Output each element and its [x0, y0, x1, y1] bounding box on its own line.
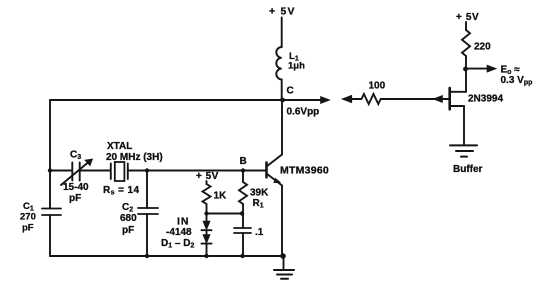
- svg-text:-4148: -4148: [166, 227, 192, 238]
- wire: drain up to node: [465, 69, 467, 92]
- node: diode branch at bottom rail: [204, 254, 208, 258]
- capacitor C1: [42, 209, 61, 216]
- inductor L1: [276, 47, 281, 79]
- label IN-4148 D1-D2: [161, 216, 194, 250]
- wire: +5V to L1: [281, 18, 283, 48]
- svg-text:+ 5V: + 5V: [269, 6, 296, 18]
- crystal XTAL: [111, 162, 128, 181]
- svg-text:Buffer: Buffer: [453, 164, 483, 175]
- wire: cap to bottom rail: [242, 233, 244, 256]
- svg-text:1μh: 1μh: [288, 61, 305, 72]
- label 220: [474, 42, 491, 53]
- capacitor .1: [234, 228, 251, 233]
- wire: 1K to diode node: [206, 204, 208, 214]
- node: 1K/39K tie: [204, 211, 208, 215]
- svg-text:D1 – D2: D1 – D2: [161, 238, 194, 250]
- svg-text:0.3 Vpp: 0.3 Vpp: [501, 75, 533, 87]
- svg-text:680: 680: [120, 213, 137, 224]
- label .1: [255, 227, 264, 238]
- svg-text:Rs = 14: Rs = 14: [103, 185, 139, 197]
- svg-text:100: 100: [369, 81, 386, 92]
- svg-text:270: 270: [20, 212, 36, 223]
- label R1 39K: [250, 188, 269, 210]
- wire: collector up to node C: [281, 100, 283, 155]
- transistor Q1 MTM3960: [267, 155, 283, 186]
- label 2N3994: [468, 94, 503, 105]
- node C: [280, 98, 285, 103]
- wire: 220 to drain node: [465, 56, 467, 69]
- node: emitter at bottom rail: [280, 253, 286, 259]
- wire: bottom rail: [50, 255, 284, 257]
- wire: C2 branch lower: [146, 214, 148, 256]
- node: drain/output: [463, 67, 468, 72]
- node: C2 at bottom rail: [145, 254, 149, 258]
- resistor 220: [462, 30, 470, 56]
- node B: [241, 168, 245, 172]
- wire: left rail lower: [49, 215, 51, 256]
- node: C1/C3 junction: [48, 168, 52, 172]
- resistor R 1K: [203, 184, 211, 204]
- svg-text:15-40: 15-40: [63, 182, 89, 193]
- wire: 100 to gate: [381, 98, 449, 100]
- svg-text:pF: pF: [22, 223, 34, 234]
- wire: +5V to 220: [465, 22, 467, 30]
- node: cap branch at bottom rail: [240, 254, 244, 258]
- svg-text:C: C: [287, 86, 294, 97]
- wire: branch to C3: [50, 170, 72, 172]
- svg-text:0.6Vpp: 0.6Vpp: [287, 107, 320, 118]
- svg-text:R1: R1: [253, 198, 264, 210]
- wire: tank top rail: [50, 99, 283, 101]
- svg-text:pF: pF: [69, 193, 81, 204]
- wire: gate feed with back arrow: [342, 95, 362, 103]
- svg-text:MTM3960: MTM3960: [280, 165, 329, 177]
- wire: output arrow: [466, 65, 497, 72]
- svg-text:IN: IN: [177, 216, 190, 228]
- capacitor C2: [138, 208, 158, 214]
- svg-text:+ 5V: + 5V: [196, 171, 219, 182]
- arrow on gate lead: [433, 95, 443, 102]
- label +5V buffer supply: [456, 12, 479, 23]
- svg-text:2N3994: 2N3994: [468, 94, 503, 105]
- svg-text:20 MHz (3H): 20 MHz (3H): [106, 152, 163, 163]
- label C1 value: [20, 201, 36, 234]
- resistor 100: [362, 94, 381, 104]
- label 100: [369, 81, 386, 92]
- wire: left rail upper: [49, 100, 51, 209]
- ground main: [274, 256, 294, 279]
- node: XTAL/C2 junction: [145, 168, 149, 172]
- svg-text:+ 5V: + 5V: [456, 12, 479, 23]
- wire: emitter down to rail: [281, 186, 283, 257]
- label C2 value: [120, 202, 137, 236]
- resistor R1 39K: [239, 171, 247, 229]
- label Buffer: [453, 164, 483, 175]
- wire: XTAL to base: [128, 170, 266, 172]
- wire: C2 branch upper: [146, 171, 148, 209]
- svg-text:pF: pF: [122, 225, 134, 236]
- wire: C3 to XTAL: [80, 170, 111, 172]
- svg-text:39K: 39K: [250, 188, 269, 199]
- wire: L1 to node C: [281, 79, 283, 100]
- label L1 value: [288, 51, 305, 72]
- capacitor C3 (variable): [61, 159, 93, 185]
- label MTM3960: [280, 165, 329, 177]
- diode D1: [202, 214, 212, 231]
- label 1K: [214, 191, 228, 202]
- label C3: [63, 150, 89, 205]
- svg-text:.1: .1: [255, 227, 264, 238]
- ground buffer: [450, 145, 477, 156]
- label +5V collector supply: [269, 6, 296, 18]
- transistor Q2 2N3994: [450, 88, 466, 109]
- svg-text:C3: C3: [70, 150, 81, 162]
- label 0.6Vpp: [287, 107, 320, 118]
- node: 39K/cap tie: [240, 211, 244, 215]
- label C: [287, 86, 294, 97]
- diode D2: [202, 230, 212, 256]
- label Eo output: [501, 65, 533, 87]
- wire: +5V stub to 1K: [206, 181, 208, 184]
- svg-text:C2: C2: [122, 202, 133, 214]
- wire: tie across to 39K branch: [207, 213, 243, 215]
- svg-text:B: B: [240, 156, 247, 167]
- wire: output arrow from node C: [283, 96, 330, 103]
- svg-text:220: 220: [474, 42, 491, 53]
- label +5V diode bias supply: [196, 171, 219, 182]
- label XTAL: [103, 141, 163, 197]
- svg-text:1K: 1K: [214, 191, 228, 202]
- svg-text:XTAL: XTAL: [107, 141, 132, 152]
- label B: [240, 156, 247, 167]
- wire: source down: [463, 106, 465, 145]
